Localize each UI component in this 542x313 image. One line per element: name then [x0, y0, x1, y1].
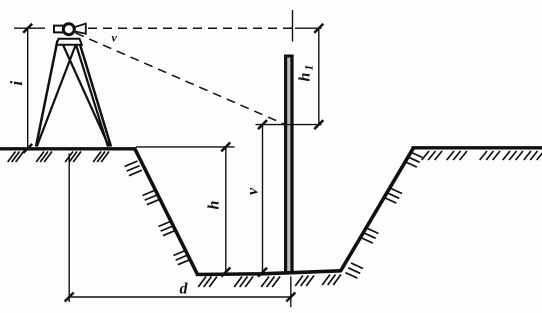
- tick h1 bottom: [314, 120, 323, 129]
- horizontal sight line (dashed): [88, 27, 295, 29]
- hatch group trench-bottom 1: [198, 277, 217, 288]
- hatch group left-slope 4: [174, 250, 191, 265]
- hatch group right-slope 3: [361, 228, 379, 243]
- tick v bottom: [258, 268, 267, 277]
- tick d right: [286, 293, 295, 302]
- hatch group ground-left 3: [65, 152, 81, 163]
- tripod leg inner-right: [75, 42, 108, 147]
- tripod back leg crossing to right foot: [62, 42, 110, 147]
- hatch group ground-right 1: [422, 151, 442, 160]
- dimension d: left extension line: [68, 154, 70, 303]
- hatch group trench-bottom 4: [295, 276, 314, 287]
- svg-text:i: i: [7, 81, 26, 86]
- rod axis extension above: [292, 10, 294, 42]
- hatch group right-slope 4 (bottom corner): [345, 263, 363, 278]
- hatch group ground-left 4: [93, 152, 109, 163]
- level instrument eyepiece box: [54, 26, 64, 33]
- hatch group ground-right 3: [480, 151, 500, 160]
- tripod leg outer-right: [79, 40, 112, 147]
- hatch group right-slope 1 (top corner): [405, 152, 423, 167]
- hatch group ground-left 2: [36, 152, 52, 163]
- level instrument telescope funnel: [74, 24, 86, 34]
- dimension h1: vertical line: [318, 28, 320, 124]
- dimension i: vertical line: [27, 28, 29, 148]
- dimension h: vertical line: [225, 147, 227, 272]
- sight level line on rod: [256, 124, 322, 126]
- svg-text:v: v: [245, 187, 262, 195]
- hatch group ground-right 4: [503, 151, 523, 160]
- tick h top: [221, 142, 230, 151]
- right trench slope: [340, 148, 413, 272]
- hatch group trench-bottom 2: [234, 277, 253, 288]
- hatch group left-slope 1: [125, 161, 142, 176]
- level instrument body circle: [63, 24, 74, 35]
- tick h bottom: [221, 268, 230, 277]
- dimension i: extension line top: [14, 27, 45, 29]
- hatch group trench-bottom 3: [261, 277, 280, 288]
- dimension d: right extension line: [290, 277, 292, 308]
- dimension d: horizontal line: [69, 296, 291, 298]
- hatch group trench-bottom 5: [322, 275, 341, 286]
- right ground surface line: [412, 146, 542, 149]
- left ground surface line: [0, 147, 135, 150]
- tick v top: [258, 120, 267, 129]
- tick i bottom: [23, 144, 32, 153]
- hatch group ground-right 5: [524, 151, 542, 160]
- dimension v: vertical line: [262, 125, 264, 273]
- svg-text:d: d: [180, 281, 189, 298]
- tripod leg outer-left: [36, 41, 58, 147]
- tripod head platform: [56, 39, 82, 45]
- tripod back leg crossing to left foot: [37, 42, 77, 147]
- hatch group right-slope 2: [384, 188, 402, 203]
- hatch group ground-left 1: [8, 152, 24, 163]
- hatch group left-slope 2: [143, 190, 160, 205]
- left trench slope: [134, 148, 197, 275]
- leveling rod (staff) in trench: [284, 55, 294, 274]
- svg-text:v: v: [112, 31, 118, 45]
- svg-text:h: h: [206, 201, 223, 210]
- dimension h: extension line at ground level: [136, 146, 235, 148]
- hatch group left-slope 3: [159, 221, 176, 236]
- tick i top: [23, 24, 32, 33]
- tick h1 top: [314, 24, 323, 33]
- dimension h1: top extension: [295, 27, 322, 29]
- tick d left: [65, 293, 74, 302]
- trench bottom line: [196, 271, 341, 275]
- inclined sight ray to rod (dashed): [76, 33, 285, 124]
- hatch group ground-right 2: [447, 151, 467, 160]
